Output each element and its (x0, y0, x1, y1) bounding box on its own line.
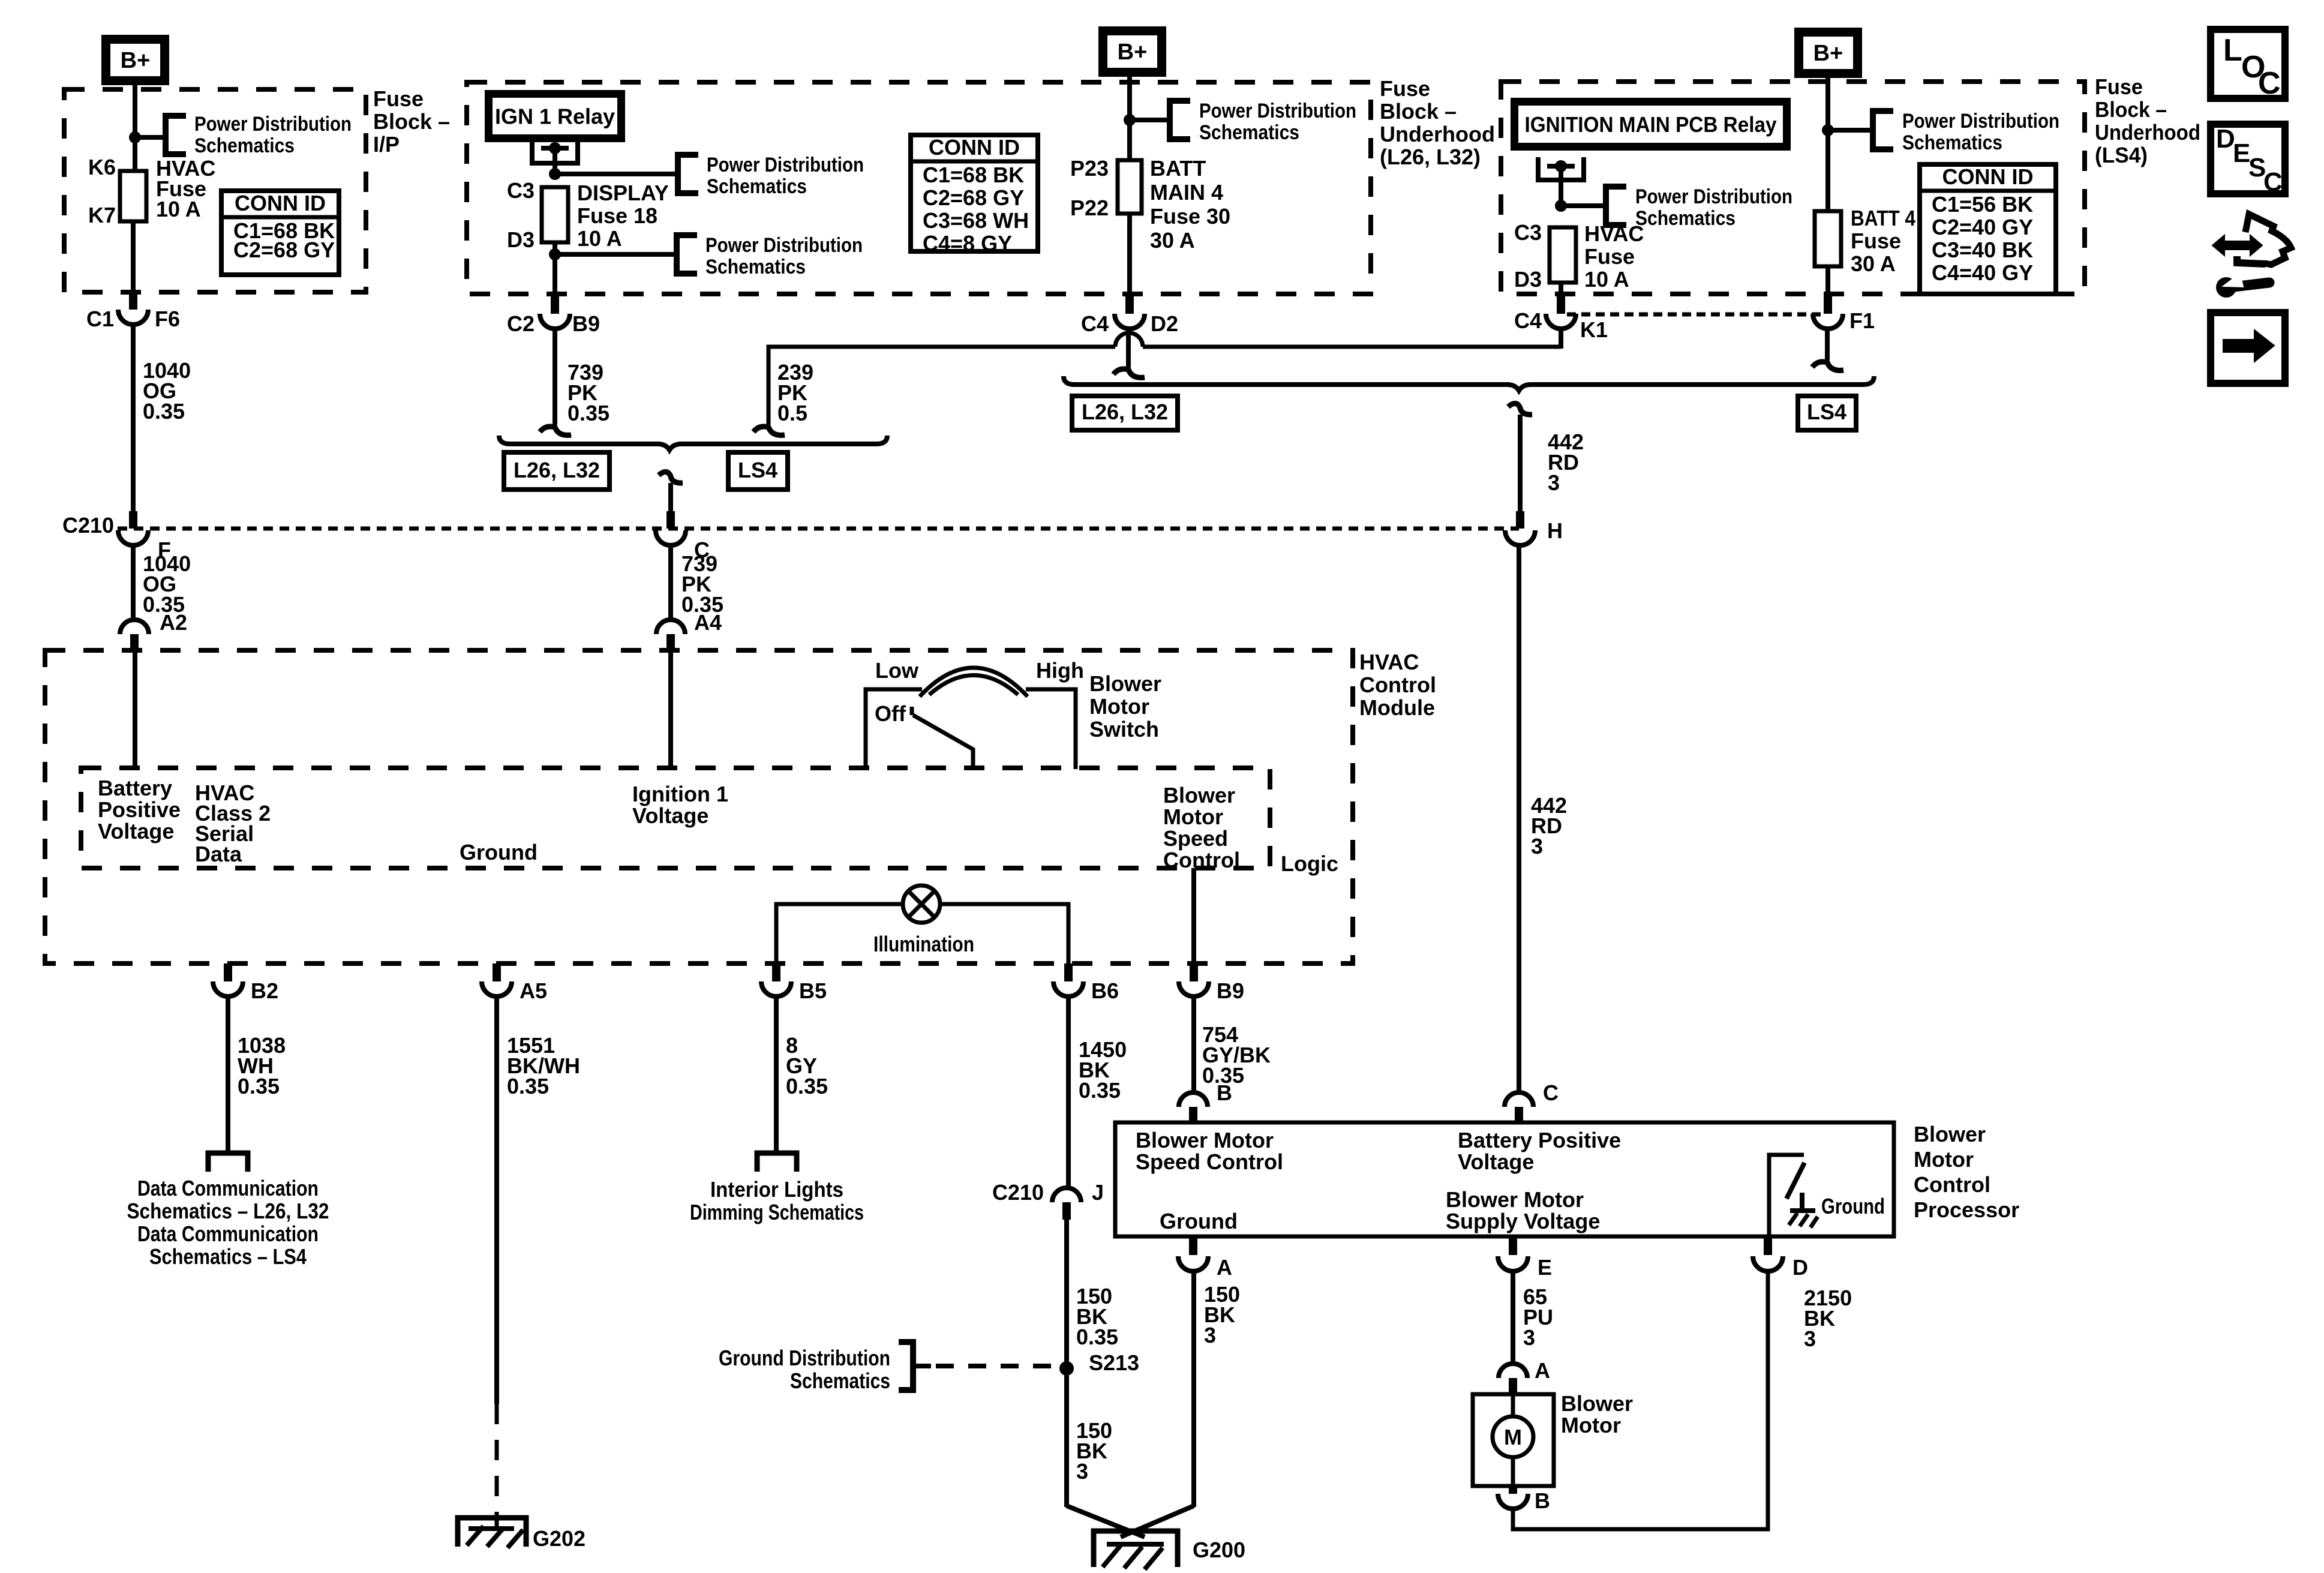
svg-text:Switch: Switch (1089, 717, 1159, 742)
wire F1 down to brace (1825, 329, 1830, 360)
svg-text:LS4: LS4 (738, 458, 777, 482)
svg-text:F6: F6 (155, 307, 180, 331)
wire battery positive inside module (133, 650, 137, 768)
svg-text:Blower: Blower (1914, 1122, 1986, 1146)
wire BATT 4 fuse to F1 (1825, 266, 1830, 294)
svg-text:P23: P23 (1070, 156, 1109, 181)
wire relay to junction (LS4) (1559, 166, 1563, 206)
wire into G200 right (1121, 1506, 1194, 1537)
reference bracket Power Distribution Schematics (upper) (678, 155, 698, 193)
svg-text:Ground: Ground (1821, 1194, 1885, 1218)
svg-text:C2=68 GY: C2=68 GY (233, 238, 335, 262)
svg-text:L: L (2223, 33, 2242, 68)
svg-text:3: 3 (1804, 1326, 1816, 1351)
svg-text:C: C (2258, 66, 2281, 101)
svg-text:0.35: 0.35 (238, 1074, 280, 1098)
power symbol B+ (left) (101, 35, 169, 85)
connector C2/B9 (540, 314, 570, 329)
processor pin E (1509, 1236, 1517, 1255)
svg-text:Low: Low (875, 658, 919, 683)
svg-text:Block –: Block – (1380, 99, 1457, 124)
svg-text:A5: A5 (520, 978, 547, 1003)
svg-text:A: A (1217, 1255, 1232, 1280)
svg-text:F1: F1 (1849, 308, 1875, 333)
svg-text:Blower: Blower (1561, 1391, 1633, 1416)
wire 442 RD upper (1518, 415, 1523, 511)
svg-text:L26, L32: L26, L32 (1082, 400, 1168, 424)
wire ignition 1 inside module (668, 650, 673, 768)
fuse BATT MAIN 4 Fuse 30 30 A (1118, 160, 1142, 214)
svg-text:C210: C210 (992, 1180, 1044, 1205)
svg-text:BATT 4: BATT 4 (1851, 206, 1915, 230)
svg-text:C4=40 GY: C4=40 GY (1932, 260, 2033, 285)
processor internal chassis ground (1800, 1193, 1804, 1211)
svg-text:Speed Control: Speed Control (1136, 1149, 1283, 1174)
svg-text:Ground: Ground (460, 840, 538, 864)
connector C4/K1 stub (1557, 294, 1565, 314)
icon DESC (2211, 124, 2285, 194)
relay box IGN 1 Relay (485, 90, 625, 142)
svg-text:Fuse 18: Fuse 18 (577, 203, 657, 228)
wire 739 PK to C210-C (668, 483, 673, 511)
connector H (1505, 530, 1535, 545)
wire fuse to connector C1 (131, 221, 136, 292)
wire 1038 WH (226, 996, 230, 1151)
svg-text:Power Distribution: Power Distribution (705, 234, 863, 257)
wire to power distribution ref 1 (555, 172, 678, 176)
svg-text:B+: B+ (121, 48, 151, 73)
svg-text:Schematics – LS4: Schematics – LS4 (149, 1244, 307, 1269)
svg-text:A2: A2 (160, 610, 187, 635)
node junction HVAC fuse (LS4) (1555, 200, 1567, 212)
svg-text:Schematics – L26, L32: Schematics – L26, L32 (127, 1199, 329, 1223)
processor pin D (1764, 1236, 1772, 1255)
brace output hook (left) (659, 472, 683, 483)
svg-text:C2=40 GY: C2=40 GY (1932, 215, 2033, 239)
svg-text:Blower: Blower (1163, 783, 1235, 807)
svg-text:J: J (1092, 1180, 1104, 1205)
wire B+ into LS4 block (1825, 78, 1830, 211)
wire 1040 OG lower (131, 545, 136, 620)
connector C4/D2 (1115, 314, 1145, 329)
ground G200 (1094, 1531, 1178, 1567)
svg-text:0.35: 0.35 (1079, 1078, 1121, 1103)
svg-text:B9: B9 (1217, 978, 1244, 1003)
svg-text:C3: C3 (507, 178, 535, 203)
svg-text:Fuse: Fuse (2095, 74, 2143, 99)
svg-text:0.35: 0.35 (143, 399, 185, 424)
wire B+ to HVAC fuse (133, 85, 137, 171)
svg-text:Power Distribution: Power Distribution (1199, 100, 1356, 122)
icon LOC (2211, 29, 2285, 98)
svg-text:H: H (1547, 518, 1563, 543)
svg-text:Underhood: Underhood (2095, 120, 2200, 145)
connector F1 stub (1824, 294, 1832, 314)
fuse block - I/P dashed box (64, 89, 366, 292)
module pin B6 (1064, 963, 1073, 981)
wire 739 PK from C2/B9 (553, 329, 557, 425)
svg-text:HVAC: HVAC (1584, 221, 1644, 246)
svg-text:HVAC: HVAC (1359, 650, 1419, 674)
wire 150 BK 3 (pin A) (1191, 1271, 1196, 1507)
svg-text:A: A (1535, 1358, 1550, 1383)
svg-text:G202: G202 (533, 1526, 585, 1551)
wire K1 down to horizontal (1559, 329, 1563, 349)
svg-text:P22: P22 (1070, 196, 1109, 220)
svg-text:DISPLAY: DISPLAY (577, 181, 669, 205)
svg-text:G200: G200 (1193, 1538, 1245, 1562)
svg-text:3: 3 (1204, 1323, 1216, 1347)
lamp Illumination (903, 885, 940, 923)
svg-text:Schematics: Schematics (790, 1368, 890, 1393)
svg-text:Fuse: Fuse (1380, 76, 1430, 101)
svg-text:B: B (1535, 1488, 1550, 1513)
connector C1/F6 (118, 310, 148, 325)
svg-text:Off: Off (875, 701, 906, 726)
wire D2 down to brace (1126, 329, 1131, 367)
wire 150 BK 3 (to G200) (1064, 1368, 1069, 1507)
node junction on B+ wire (129, 131, 141, 143)
wire to power distribution ref (135, 135, 166, 140)
svg-text:Control: Control (1163, 848, 1240, 872)
wire 150 BK 0.35 (1064, 1220, 1069, 1368)
reference bracket Power Distribution Schematics (I/P) (166, 116, 186, 154)
relay box IGNITION MAIN PCB Relay (1511, 98, 1791, 151)
svg-text:B+: B+ (1118, 40, 1148, 65)
svg-text:Voltage: Voltage (632, 803, 708, 828)
svg-text:Fuse: Fuse (1584, 244, 1635, 269)
wire end curl 239 (753, 427, 785, 435)
svg-text:C: C (2263, 167, 2283, 197)
svg-text:BATT: BATT (1150, 156, 1206, 181)
label box LS4 (right) (1798, 396, 1856, 430)
svg-text:3: 3 (1076, 1459, 1088, 1484)
svg-text:Block –: Block – (2095, 97, 2167, 122)
label box L26, L32 (right) (1072, 396, 1178, 430)
svg-text:Schematics: Schematics (1635, 207, 1736, 230)
svg-text:30 A: 30 A (1851, 251, 1896, 276)
wire 2150 BK 3 (1513, 1271, 1768, 1529)
svg-text:IGN 1 Relay: IGN 1 Relay (495, 104, 615, 129)
svg-text:C2: C2 (507, 311, 535, 336)
blower motor pin B (1509, 1486, 1517, 1494)
svg-text:B+: B+ (1813, 41, 1843, 66)
svg-text:10 A: 10 A (156, 197, 201, 221)
reference bracket Power Distribution Schematics (lower) (677, 235, 697, 274)
connector A2 (120, 620, 149, 634)
wire HVAC fuse to C4/K1 (1559, 283, 1563, 294)
module pin B2 (224, 963, 232, 981)
reference bracket Power Distribution Schematics (LS4 relay) (1606, 187, 1626, 225)
wire blower speed control inside logic (1191, 868, 1196, 963)
connector C4/D2 stub (1125, 294, 1134, 314)
dashed reference to S213 (936, 1364, 1056, 1368)
svg-text:30 A: 30 A (1150, 228, 1195, 253)
node junction on BATT MAIN wire (1124, 114, 1136, 126)
wire 8 GY (774, 996, 779, 1151)
svg-text:C4: C4 (1081, 311, 1109, 336)
svg-text:Motor: Motor (1914, 1147, 1974, 1172)
logic box (dashed) (81, 768, 1270, 868)
svg-text:E: E (1538, 1255, 1552, 1280)
svg-text:C1=68 BK: C1=68 BK (923, 163, 1024, 187)
brace left (splice L26,L32 / LS4) (499, 436, 887, 450)
svg-text:Fuse 30: Fuse 30 (1150, 204, 1230, 229)
wire to G202 (dashed) (495, 1404, 499, 1512)
svg-text:Logic: Logic (1281, 851, 1338, 876)
node relay output (LS4) (1555, 160, 1567, 172)
motor symbol M (1493, 1416, 1533, 1457)
node junction BATT 4 wire (1822, 124, 1834, 136)
icon adjust (hand with wrench) (2223, 241, 2252, 250)
wire 739 PK to A4 (668, 545, 673, 620)
brace output hook (right) (1508, 403, 1532, 415)
svg-text:Schematics: Schematics (1902, 131, 2002, 154)
node junction display fuse (549, 168, 561, 180)
wire end curl D2 (1113, 369, 1145, 377)
svg-text:Block –: Block – (373, 109, 450, 134)
inline connector line K1 to F1 (1567, 313, 1821, 317)
svg-text:Data: Data (195, 842, 242, 866)
svg-text:(L26, L32): (L26, L32) (1380, 145, 1481, 169)
lamp wire right (940, 904, 1068, 963)
svg-text:Battery: Battery (98, 776, 172, 800)
node junction below display fuse (553, 242, 557, 254)
fuse DISPLAY Fuse 18 10 A (542, 187, 568, 242)
processor pin A (1189, 1236, 1197, 1255)
processor box Blower Motor Control Processor (1115, 1122, 1894, 1236)
svg-text:Ground Distribution: Ground Distribution (719, 1346, 890, 1370)
connector H stub (1516, 511, 1524, 529)
svg-text:Motor: Motor (1163, 804, 1223, 829)
connector C210-F (118, 530, 148, 545)
svg-text:B9: B9 (572, 311, 600, 336)
wire 239 PK corner (768, 347, 1115, 425)
svg-text:D3: D3 (507, 227, 535, 252)
svg-text:Positive: Positive (98, 797, 181, 822)
svg-text:CONN ID: CONN ID (235, 191, 326, 215)
processor pin C (1505, 1092, 1533, 1107)
svg-text:3: 3 (1523, 1325, 1535, 1350)
module pin B5 (772, 963, 780, 981)
wire BATT MAIN fuse to C4 (1127, 214, 1132, 294)
blower motor switch body (866, 689, 922, 769)
svg-text:3: 3 (1531, 834, 1543, 858)
svg-text:Power Distribution: Power Distribution (194, 113, 352, 136)
svg-text:Speed: Speed (1163, 826, 1228, 851)
relay output bracket (IGN 1) (532, 140, 578, 163)
svg-text:M: M (1504, 1425, 1522, 1449)
svg-text:LS4: LS4 (1807, 400, 1846, 424)
svg-text:Schematics: Schematics (707, 175, 807, 198)
wire display fuse to C2 (553, 254, 557, 294)
wire to power distribution ref 5 (1828, 128, 1873, 133)
power symbol B+ (middle) (1098, 26, 1166, 77)
wire to power distribution ref 2 (555, 252, 677, 257)
svg-text:Dimming Schematics: Dimming Schematics (690, 1200, 864, 1224)
svg-text:C: C (1543, 1080, 1559, 1105)
svg-text:IGNITION MAIN PCB Relay: IGNITION MAIN PCB Relay (1525, 112, 1777, 137)
svg-text:D: D (2216, 124, 2235, 154)
wire to power distribution ref 4 (1561, 203, 1606, 208)
switch contact arc (920, 668, 1028, 697)
svg-text:Supply Voltage: Supply Voltage (1446, 1209, 1600, 1233)
svg-text:High: High (1036, 658, 1084, 683)
svg-text:Interior Lights: Interior Lights (710, 1177, 843, 1202)
svg-text:D: D (1792, 1255, 1808, 1280)
splice S213 (1059, 1361, 1074, 1376)
wire relay to junction (553, 148, 557, 174)
wire 754 GY/BK (1191, 996, 1196, 1092)
svg-text:Fuse: Fuse (1851, 229, 1901, 253)
fuse block - underhood LS4 dashed box (1501, 82, 2085, 294)
svg-text:0.35: 0.35 (786, 1074, 828, 1098)
offpage connector (interior lights) (757, 1153, 797, 1172)
svg-text:C4=8 GY: C4=8 GY (923, 231, 1012, 256)
svg-text:10 A: 10 A (577, 226, 622, 251)
svg-text:Voltage: Voltage (1458, 1149, 1534, 1174)
wire B+ into fuse block (1127, 77, 1132, 160)
wire to power distribution ref 3 (1130, 118, 1170, 122)
svg-text:CONN ID: CONN ID (929, 135, 1020, 160)
svg-text:C1=56 BK: C1=56 BK (1932, 192, 2033, 217)
connector table CONN ID (LS4 block) (1920, 164, 2056, 294)
svg-text:Power Distribution: Power Distribution (707, 154, 864, 176)
wire 1450 BK (1066, 996, 1071, 1188)
wire end curl F1 (1812, 362, 1843, 370)
svg-text:B5: B5 (799, 978, 827, 1003)
svg-text:Ignition 1: Ignition 1 (632, 782, 728, 806)
svg-text:Blower: Blower (1089, 671, 1161, 696)
svg-text:Control: Control (1914, 1172, 1990, 1197)
svg-text:S213: S213 (1089, 1350, 1139, 1375)
svg-text:D3: D3 (1514, 267, 1542, 292)
wire 442 RD to processor C (1517, 545, 1521, 1092)
svg-text:A4: A4 (694, 610, 722, 635)
svg-text:Blower Motor: Blower Motor (1446, 1187, 1584, 1212)
svg-text:K6: K6 (88, 155, 116, 179)
svg-text:Fuse: Fuse (373, 86, 424, 111)
module pin A5 (493, 963, 501, 981)
switch off tick (910, 707, 914, 715)
svg-text:K1: K1 (1580, 317, 1608, 342)
svg-text:C210: C210 (62, 513, 114, 538)
svg-text:C3=68 WH: C3=68 WH (923, 208, 1029, 233)
module pin B9 (1190, 963, 1198, 981)
wire 239/K1 horizontal (1143, 345, 1561, 349)
lamp wire left (776, 904, 903, 963)
svg-text:Processor: Processor (1914, 1197, 2019, 1222)
connector C210-J (1052, 1188, 1081, 1202)
connector table CONN ID (L26,L32 block) (911, 135, 1038, 251)
connector C210-F stub (129, 511, 137, 529)
svg-text:B: B (1217, 1080, 1232, 1105)
node relay output (549, 142, 561, 154)
wire hop over D2 wire (1115, 333, 1143, 347)
label box L26, L32 (left) (504, 452, 609, 490)
svg-text:C3=40 BK: C3=40 BK (1932, 238, 2033, 262)
connector C210-C (656, 530, 686, 545)
reference bracket Power Distribution Schematics (BATT MAIN) (1170, 101, 1190, 139)
module box HVAC Control Module (dashed) (45, 650, 1353, 963)
svg-text:Module: Module (1359, 695, 1435, 720)
svg-text:Control: Control (1359, 673, 1436, 697)
wire into G200 left (1067, 1506, 1145, 1537)
processor internal ground switch (1769, 1155, 1804, 1236)
svg-text:10 A: 10 A (1584, 267, 1629, 292)
svg-text:CONN ID: CONN ID (1942, 164, 2034, 189)
svg-text:Schematics: Schematics (1199, 121, 1299, 144)
svg-text:Battery Positive: Battery Positive (1458, 1128, 1621, 1152)
svg-text:3: 3 (1548, 470, 1560, 495)
svg-text:(LS4): (LS4) (2095, 143, 2148, 167)
connector C1/F6 stub (129, 292, 137, 310)
brace right (splice L26,L32 / LS4) (1064, 376, 1874, 391)
connector F1 (1813, 314, 1843, 329)
svg-text:Power Distribution: Power Distribution (1902, 110, 2059, 133)
blower motor pin A (1499, 1364, 1527, 1378)
svg-text:C2=68 GY: C2=68 GY (923, 185, 1024, 210)
wire end curl 739 (540, 427, 571, 435)
offpage connector (data communication) (208, 1153, 248, 1172)
svg-text:Motor: Motor (1561, 1413, 1621, 1437)
wire 65 PU 3 (1511, 1271, 1515, 1364)
svg-text:Schematics: Schematics (194, 134, 295, 157)
inline connector C210 line (118, 527, 1519, 531)
svg-text:0.35: 0.35 (568, 401, 609, 425)
svg-text:Schematics: Schematics (705, 256, 806, 278)
svg-text:Data Communication: Data Communication (137, 1176, 319, 1200)
svg-text:Blower Motor: Blower Motor (1136, 1128, 1274, 1152)
connector A4 (656, 620, 685, 634)
connector C2/B9 stub (551, 294, 559, 314)
wire 1040 OG (131, 325, 136, 511)
connector C4/K1 (1546, 314, 1576, 329)
fuse HVAC Fuse 10 A (LS4) (1550, 227, 1576, 283)
connector table CONN ID (I/P) (221, 191, 339, 275)
svg-text:0.35: 0.35 (1076, 1325, 1118, 1349)
svg-text:L26, L32: L26, L32 (514, 458, 600, 482)
connector C210-C stub (666, 511, 675, 529)
wire 1551 BK/WH (494, 996, 499, 1404)
svg-text:Motor: Motor (1089, 694, 1149, 719)
fuse BATT 4 Fuse 30 A (1815, 211, 1841, 266)
svg-text:B6: B6 (1091, 978, 1119, 1003)
svg-text:Power Distribution: Power Distribution (1635, 185, 1792, 208)
svg-text:MAIN 4: MAIN 4 (1150, 180, 1223, 205)
ground G202 (458, 1518, 526, 1547)
svg-text:0.35: 0.35 (507, 1074, 549, 1098)
svg-text:I/P: I/P (373, 132, 400, 157)
svg-text:D2: D2 (1151, 311, 1178, 336)
svg-text:0.5: 0.5 (777, 401, 807, 425)
svg-text:Illumination: Illumination (873, 932, 974, 956)
reference bracket Power Distribution Schematics (BATT 4) (1873, 111, 1893, 149)
svg-text:Ground: Ground (1160, 1209, 1238, 1233)
blower motor box (1473, 1394, 1554, 1486)
power symbol B+ (right) (1794, 28, 1862, 78)
fuse block - underhood L26,L32 dashed box (467, 82, 1371, 294)
svg-text:B2: B2 (251, 978, 278, 1003)
relay output bracket (IGNITION MAIN) (1538, 157, 1584, 180)
label box LS4 (left) (728, 452, 788, 490)
fuse HVAC Fuse 10 A (I/P) (120, 171, 146, 221)
svg-text:Voltage: Voltage (98, 819, 174, 843)
svg-text:Data Communication: Data Communication (137, 1221, 319, 1246)
icon arrow (2211, 313, 2285, 383)
svg-text:Underhood: Underhood (1380, 122, 1495, 146)
processor pin B (1179, 1092, 1208, 1107)
